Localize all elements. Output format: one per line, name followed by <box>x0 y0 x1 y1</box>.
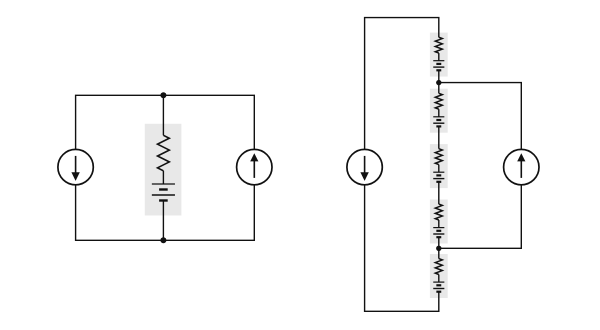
highlight box around R6/V6 <box>430 254 448 298</box>
wire: V2 to R3 <box>438 70 440 93</box>
node: top junction dot <box>160 92 166 98</box>
node: upper junction dot (right circuit) <box>436 80 441 85</box>
highlight box around R1/V1 branch <box>145 124 182 216</box>
resistor R2 <box>435 37 442 53</box>
node: lower junction dot (right circuit) <box>436 246 441 251</box>
wire: middle branch bottom segment <box>162 201 164 241</box>
battery V5 <box>433 228 444 238</box>
wire: left circuit top side <box>76 95 255 149</box>
resistor R6 <box>435 259 442 275</box>
battery V1 (two cells) <box>152 184 175 201</box>
resistor R1 <box>158 135 170 171</box>
wire: right circuit bottom side <box>365 185 439 311</box>
highlight box around R5/V5 <box>430 200 448 244</box>
highlight box around R2/V2 <box>430 33 448 77</box>
wire: R5 to V5 <box>438 220 440 228</box>
wire: R1 to V1 <box>162 171 164 184</box>
wire: R3 to V3 <box>438 109 440 117</box>
wire: middle branch top segment <box>162 95 164 135</box>
wire: R6 to V6 <box>438 275 440 283</box>
wire: R4 to V4 <box>438 165 440 173</box>
wire: left circuit bottom side <box>76 185 255 240</box>
current source I2 (arrow up) <box>237 149 272 184</box>
wire: branch to inner source, bottom <box>439 185 522 248</box>
wire: V5 to R6 <box>438 237 440 258</box>
battery V2 <box>433 61 444 71</box>
resistor R3 <box>435 93 442 109</box>
wire: branch to inner source, top <box>439 83 522 150</box>
battery V6 <box>433 282 444 292</box>
current source I4 (arrow up) <box>504 149 539 184</box>
highlight box around R4/V4 <box>430 144 448 188</box>
highlight box around R3/V3 <box>430 89 448 133</box>
wire: R2 to V2 <box>438 53 440 61</box>
wire: right circuit top side <box>365 18 439 150</box>
battery V4 <box>433 172 444 182</box>
resistor R4 <box>435 149 442 165</box>
node: bottom junction dot <box>160 237 166 243</box>
resistor R5 <box>435 204 442 220</box>
current source I3 (arrow down) <box>347 149 382 184</box>
wire: V3 to R4 <box>438 126 440 148</box>
wire: V4 to R5 <box>438 182 440 204</box>
battery V3 <box>433 117 444 127</box>
current source I1 (arrow down) <box>58 149 93 184</box>
